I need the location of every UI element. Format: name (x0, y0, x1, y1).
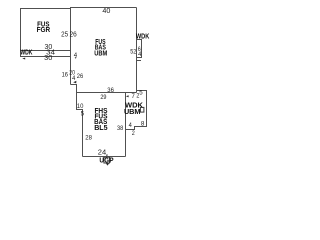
svg-text:FGR: FGR (37, 25, 51, 34)
lower box right wall (125, 93, 127, 157)
svg-text:4: 4 (74, 52, 78, 59)
svg-text:U: U (99, 156, 104, 165)
UBM small attachment rect (140, 107, 144, 112)
svg-text:29: 29 (100, 94, 106, 101)
svg-text:25: 25 (61, 29, 68, 38)
svg-text:P: P (109, 156, 113, 165)
dim arrow below deck 4 (75, 57, 77, 59)
left WDK deck bottom wall (20, 56, 70, 58)
svg-text:5: 5 (139, 89, 143, 96)
dim arrow below 4 jog (73, 81, 76, 84)
svg-text:26: 26 (70, 30, 77, 39)
svg-text:5: 5 (81, 110, 85, 117)
right small WDK deck box (137, 40, 142, 58)
bottom-right WDK UBM deck outline (126, 91, 147, 130)
dim arrow 7 near lower box top right (126, 95, 129, 97)
svg-text:10: 10 (77, 103, 84, 110)
svg-text:BL5: BL5 (94, 123, 107, 132)
FGR box bottom wall (20, 50, 70, 52)
right small deck lower tick (137, 60, 142, 62)
svg-text:2: 2 (132, 130, 135, 137)
svg-text:28: 28 (85, 134, 92, 141)
lower box bottom wall (83, 156, 126, 158)
dim arrow left end (22, 58, 25, 60)
svg-text:UBM: UBM (124, 107, 141, 116)
svg-text:16: 16 (62, 72, 69, 79)
svg-text:26: 26 (77, 73, 84, 80)
main box bottom wall (77, 92, 137, 94)
lower box left wall with step (77, 93, 83, 157)
FGR box outline (21, 9, 71, 57)
main box left jog wall (71, 85, 77, 93)
svg-text:30: 30 (44, 53, 52, 62)
svg-text:8: 8 (141, 120, 145, 127)
dim arrow above bottom wall near 24 (106, 155, 108, 157)
svg-text:52: 52 (130, 48, 136, 55)
dim arrow below UGP (106, 163, 109, 165)
svg-text:UBM: UBM (94, 49, 107, 58)
main box left wall (70, 8, 72, 85)
svg-text:4: 4 (138, 51, 141, 58)
svg-text:40: 40 (102, 6, 110, 15)
svg-text:4: 4 (72, 75, 75, 82)
UGP G box (104, 157, 110, 163)
svg-text:7: 7 (132, 93, 135, 100)
main box top wall (70, 7, 137, 9)
main box right wall (136, 8, 138, 93)
svg-text:36: 36 (107, 87, 114, 94)
svg-text:38: 38 (117, 125, 123, 132)
svg-text:WDK: WDK (136, 32, 150, 41)
svg-text:WDK: WDK (20, 48, 32, 57)
svg-text:4: 4 (129, 122, 132, 129)
